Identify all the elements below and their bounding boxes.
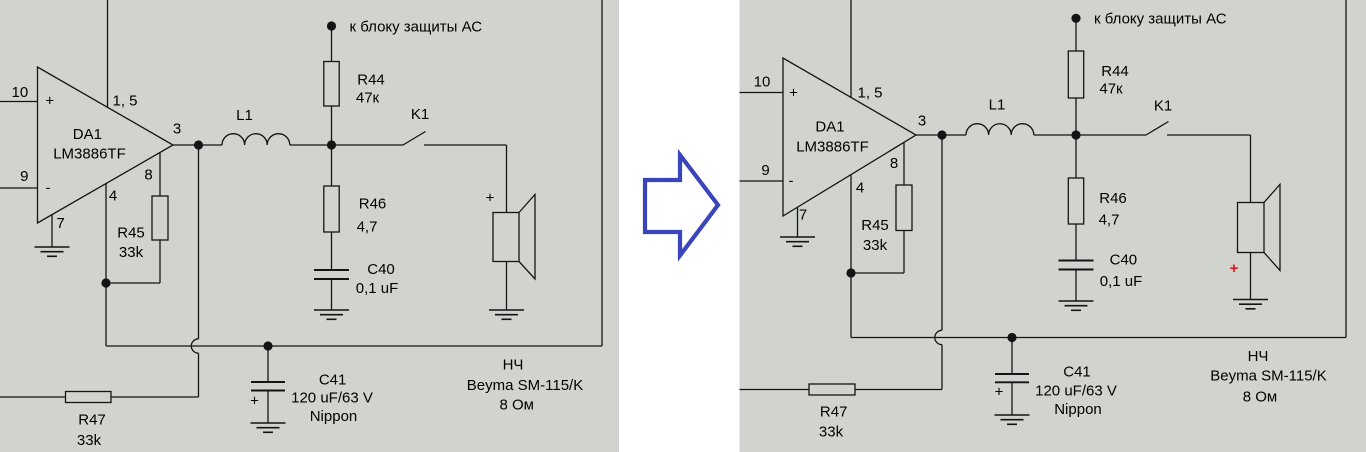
- svg-text:НЧ: НЧ: [503, 357, 524, 374]
- wire R45 bottom (left): [159, 240, 161, 283]
- svg-text:8: 8: [144, 166, 152, 183]
- wire R47 right (left): [111, 396, 199, 398]
- terminal to protection block (left): [327, 21, 336, 30]
- wire hop over rail (right): [935, 330, 942, 344]
- junction R44/R46 node (left): [327, 140, 336, 149]
- svg-text:R46: R46: [359, 195, 387, 212]
- svg-text:8 Ом: 8 Ом: [1243, 388, 1278, 405]
- wire C40 to ground (left): [331, 279, 333, 310]
- wire output pin 3 (right): [916, 134, 966, 136]
- blue block arrow between panels: [645, 155, 718, 256]
- resistor R44 (left): [324, 62, 339, 107]
- svg-text:0,1 uF: 0,1 uF: [356, 280, 399, 297]
- ground pin 7 (right): [780, 237, 815, 246]
- ground speaker (right): [1233, 300, 1268, 309]
- capacitor C40 (right): [1059, 261, 1094, 270]
- svg-text:4: 4: [856, 179, 864, 196]
- wire C40 to ground (right): [1075, 270, 1077, 302]
- svg-text:к блоку защиты АС: к блоку защиты АС: [350, 18, 483, 35]
- wire R47 left (right): [740, 389, 810, 391]
- svg-text:НЧ: НЧ: [1248, 348, 1269, 365]
- wire pin 4 (left): [105, 184, 107, 283]
- junction R44/R46 node (right): [1071, 130, 1080, 139]
- op-amp DA1 LM3886TF (right): [783, 58, 916, 216]
- svg-text:C41: C41: [319, 372, 347, 389]
- svg-text:Nippon: Nippon: [310, 408, 358, 425]
- junction pin4/R45 (left): [101, 278, 110, 287]
- svg-text:3: 3: [918, 112, 926, 129]
- svg-text:DA1: DA1: [73, 126, 102, 143]
- svg-text:8 Ом: 8 Ом: [499, 396, 534, 413]
- svg-text:LM3886TF: LM3886TF: [53, 145, 126, 162]
- svg-text:33k: 33k: [77, 432, 102, 449]
- svg-text:47к: 47к: [1099, 80, 1123, 97]
- svg-text:9: 9: [761, 162, 769, 179]
- svg-text:4,7: 4,7: [1099, 211, 1120, 228]
- svg-text:R46: R46: [1099, 190, 1127, 207]
- capacitor C41 (right): [995, 374, 1029, 382]
- resistor R47 (right): [809, 384, 855, 395]
- wire pin 9 input (left): [0, 187, 38, 189]
- svg-text:10: 10: [12, 84, 29, 101]
- svg-text:1, 5: 1, 5: [112, 92, 137, 109]
- wire switch K1 to speaker (right): [1167, 134, 1251, 136]
- resistor R46 (left): [324, 186, 339, 232]
- resistor R45 (left): [152, 196, 168, 240]
- svg-text:+: +: [250, 392, 259, 409]
- wire R44 to node (left): [331, 106, 333, 145]
- capacitor C40 (left): [314, 270, 349, 279]
- ground C41 (right): [995, 415, 1030, 424]
- wire feedback node down (left): [105, 283, 107, 346]
- right schematic panel background: [740, 0, 1366, 452]
- svg-text:R44: R44: [357, 71, 385, 88]
- svg-text:120 uF/63 V: 120 uF/63 V: [1035, 382, 1117, 399]
- resistor R46 (right): [1068, 178, 1083, 224]
- wire output node down (left): [198, 145, 200, 339]
- wire output node down (right): [941, 135, 943, 330]
- inductor L1 (left): [222, 134, 290, 145]
- resistor R45 (right): [896, 185, 912, 231]
- svg-text:R47: R47: [820, 403, 848, 420]
- wire feedback node down (right): [850, 273, 852, 338]
- speaker LS НЧ Beyma (left): [493, 195, 535, 280]
- svg-text:R44: R44: [1101, 63, 1129, 80]
- svg-text:4: 4: [109, 187, 117, 204]
- resistor R44 (right): [1068, 51, 1083, 98]
- svg-text:R45: R45: [117, 224, 145, 241]
- ground C41 (left): [251, 423, 286, 432]
- svg-text:-: -: [789, 172, 794, 189]
- capacitor C41 (left): [251, 382, 285, 391]
- svg-text:3: 3: [173, 120, 181, 137]
- svg-text:+: +: [45, 93, 54, 110]
- wire R45 to pin4 node (right): [851, 272, 904, 274]
- wire pin 7 (left): [51, 215, 53, 247]
- wire speaker to ground (left): [506, 262, 508, 311]
- svg-text:L1: L1: [236, 107, 253, 124]
- op-amp DA1 LM3886TF (left): [38, 67, 174, 223]
- wire R46 to C40 (left): [331, 232, 333, 270]
- wire pin 9 input (right): [740, 180, 784, 182]
- wire pin 8 (right): [903, 142, 905, 185]
- wire R47 left (left): [0, 396, 66, 398]
- svg-text:K1: K1: [411, 106, 429, 123]
- wire hop over rail (left): [191, 339, 198, 353]
- wire C41 to ground (right): [1011, 382, 1013, 415]
- svg-text:-: -: [46, 179, 51, 196]
- junction C41 on rail (left): [263, 341, 272, 350]
- speaker LS НЧ Beyma (right): [1238, 184, 1281, 270]
- svg-text:+: +: [486, 189, 495, 206]
- wire right border (left): [601, 0, 603, 346]
- wire switch K1 to speaker (left): [424, 144, 507, 146]
- svg-text:R45: R45: [861, 217, 889, 234]
- wire L1 to R44 node (right): [1034, 134, 1076, 136]
- svg-text:+: +: [789, 84, 798, 101]
- wire terminal to R44 (right): [1075, 18, 1077, 51]
- wire output pin 3 (left): [173, 144, 222, 146]
- left schematic panel background: [0, 0, 619, 452]
- wire C41 to ground (left): [267, 391, 269, 424]
- ground C40 (left): [314, 310, 349, 319]
- svg-text:LM3886TF: LM3886TF: [796, 138, 869, 155]
- ground speaker (left): [489, 310, 524, 319]
- wire bottom rail (left): [106, 345, 602, 347]
- svg-text:DA1: DA1: [815, 119, 844, 136]
- junction output node (left): [194, 140, 203, 149]
- svg-text:R47: R47: [78, 411, 106, 428]
- wire pins 1,5 (right): [850, 0, 852, 97]
- wire rail to C41 (left): [267, 346, 269, 382]
- wire speaker to ground (right): [1250, 253, 1252, 300]
- wire R45 to pin4 node (left): [106, 282, 160, 284]
- svg-text:+: +: [1230, 260, 1239, 277]
- wire node to switch K1 (right): [1076, 134, 1146, 136]
- wire pins 1,5 (left): [107, 0, 109, 107]
- terminal to protection block (right): [1071, 14, 1080, 23]
- svg-text:0,1 uF: 0,1 uF: [1100, 273, 1143, 290]
- wire R44 to node (right): [1075, 98, 1077, 135]
- wire R46 to C40 (right): [1075, 224, 1077, 261]
- wire down to R47 (left): [198, 353, 200, 397]
- svg-text:33k: 33k: [863, 237, 888, 254]
- svg-text:4,7: 4,7: [357, 218, 378, 235]
- svg-text:9: 9: [20, 168, 28, 185]
- svg-text:K1: K1: [1154, 97, 1172, 114]
- wire pin 10 input (right): [740, 92, 784, 94]
- junction C41 on rail (right): [1007, 333, 1016, 342]
- svg-text:Nippon: Nippon: [1054, 401, 1102, 418]
- wire down to speaker (right): [1250, 135, 1252, 203]
- ground C40 (right): [1059, 301, 1094, 310]
- svg-text:10: 10: [754, 73, 771, 90]
- svg-text:+: +: [995, 383, 1004, 400]
- wire down to R47 (right): [941, 345, 943, 390]
- svg-text:7: 7: [56, 215, 64, 232]
- svg-text:7: 7: [799, 206, 807, 223]
- wire pin 7 (right): [797, 207, 799, 237]
- svg-text:47к: 47к: [356, 89, 380, 106]
- junction output node (right): [937, 130, 946, 139]
- wire right border (right): [1345, 0, 1347, 338]
- svg-text:33k: 33k: [819, 423, 844, 440]
- wire terminal to R44 (left): [331, 26, 333, 62]
- wire pin 4 (right): [850, 175, 852, 273]
- resistor R47 (left): [66, 392, 112, 403]
- switch K1 blade (left): [403, 132, 426, 146]
- svg-text:C40: C40: [1110, 251, 1138, 268]
- svg-text:C41: C41: [1063, 363, 1091, 380]
- switch K1 blade (right): [1146, 122, 1169, 136]
- svg-text:L1: L1: [989, 96, 1006, 113]
- wire down to speaker (left): [506, 145, 508, 213]
- svg-text:33k: 33k: [119, 244, 144, 261]
- svg-text:8: 8: [890, 155, 898, 172]
- wire bottom rail (right): [851, 337, 1346, 339]
- wire L1 to R44 node (left): [290, 144, 332, 146]
- wire node to switch K1 (left): [332, 144, 404, 146]
- ground pin 7 (left): [35, 247, 70, 256]
- wire R47 right (right): [855, 389, 942, 391]
- wire R45 bottom (right): [903, 231, 905, 274]
- inductor L1 (right): [966, 124, 1034, 135]
- wire rail to C41 (right): [1011, 338, 1013, 375]
- wire pin 8 (left): [159, 152, 161, 196]
- junction pin4/R45 (right): [846, 268, 855, 277]
- svg-text:120 uF/63 V: 120 uF/63 V: [291, 390, 373, 407]
- svg-text:Beyma SM-115/K: Beyma SM-115/K: [467, 377, 583, 394]
- wire node to R46 (right): [1075, 135, 1077, 178]
- svg-text:C40: C40: [367, 261, 395, 278]
- svg-text:Beyma SM-115/K: Beyma SM-115/K: [1210, 368, 1326, 385]
- svg-text:1, 5: 1, 5: [857, 84, 882, 101]
- wire node to R46 (left): [331, 145, 333, 186]
- svg-text:к блоку защиты АС: к блоку защиты АС: [1094, 11, 1227, 28]
- wire pin 10 input (left): [0, 101, 38, 103]
